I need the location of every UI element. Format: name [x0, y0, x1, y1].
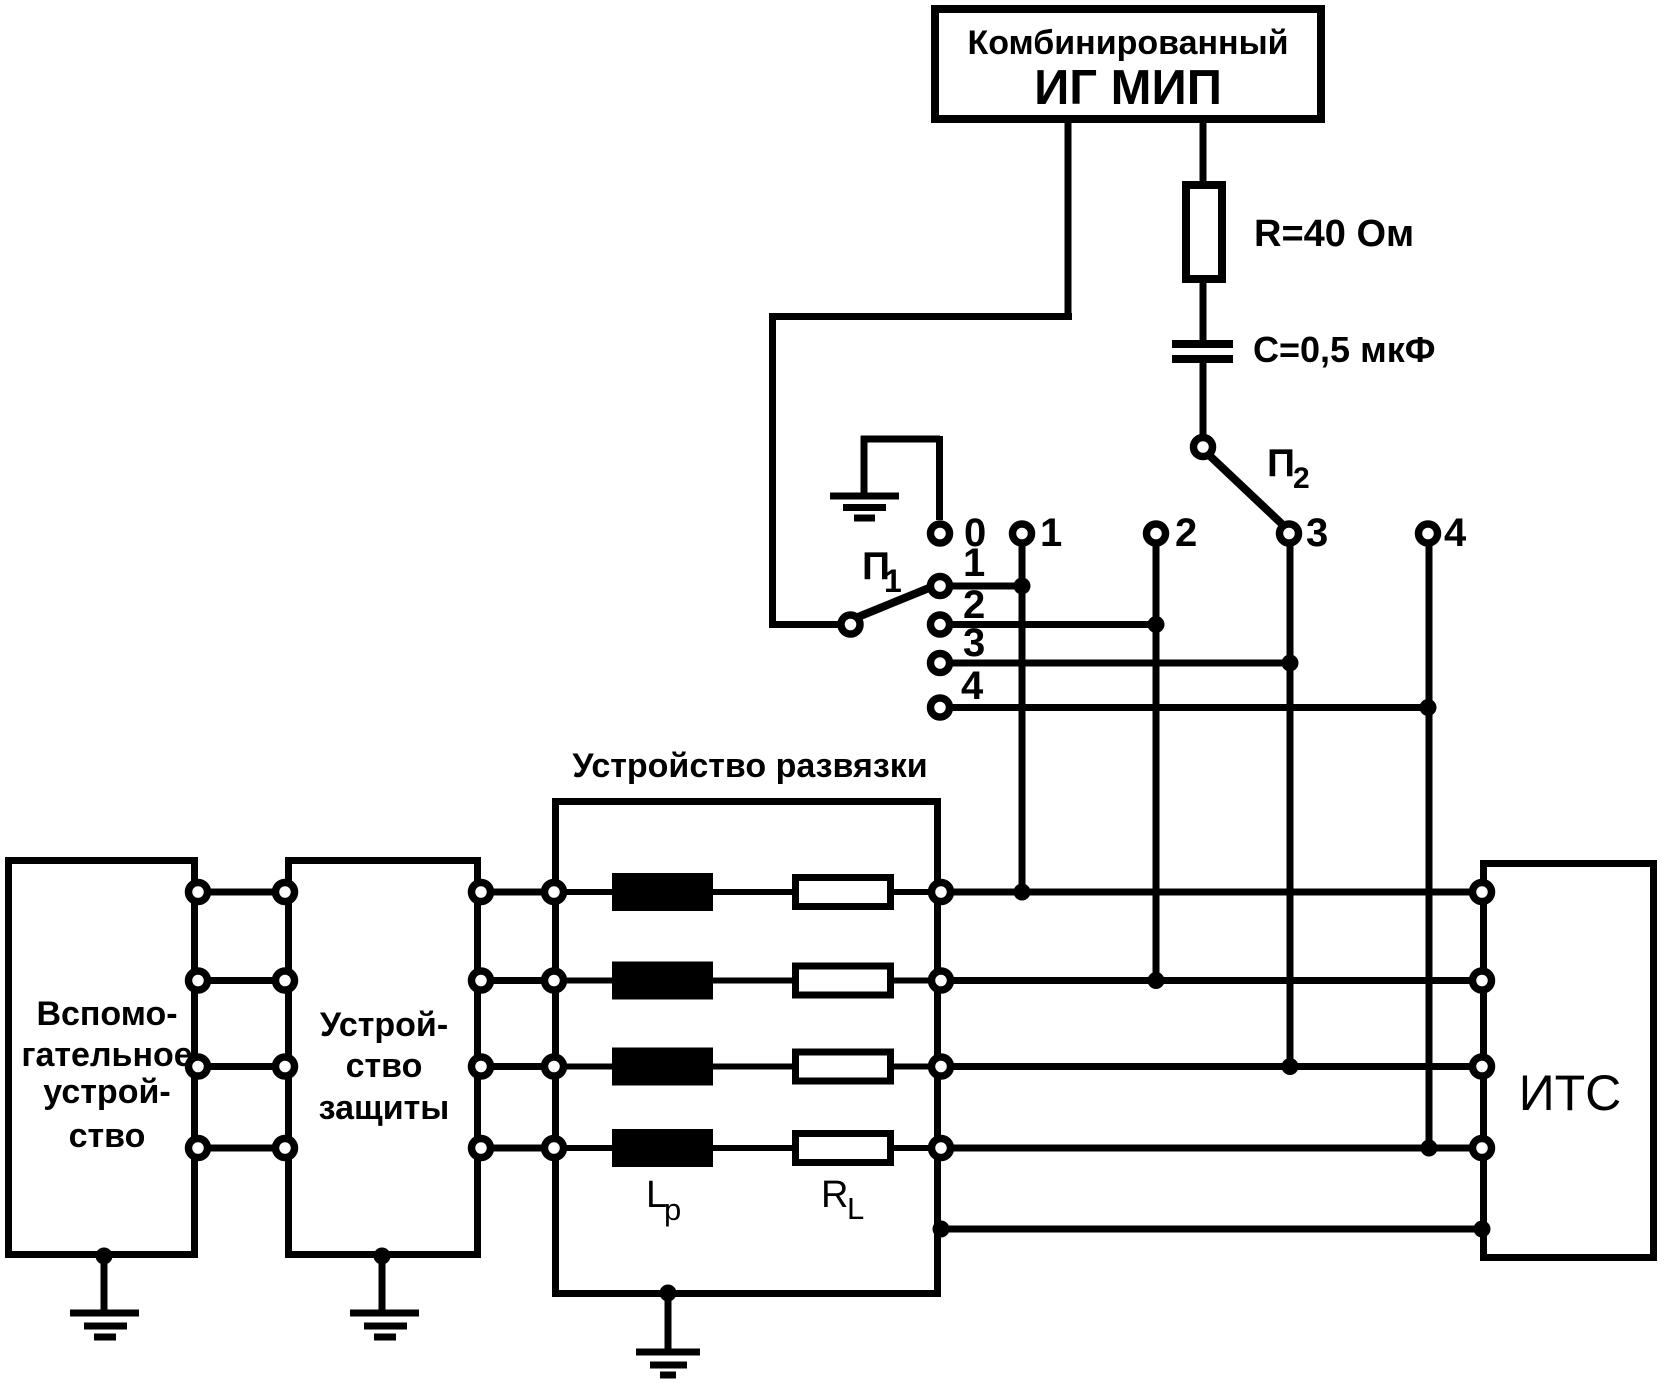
row1 wires	[198, 889, 1480, 896]
svg-text:гательное: гательное	[21, 1036, 192, 1074]
selector contact 1	[931, 577, 950, 596]
svg-text:ство: ство	[346, 1047, 423, 1085]
row2 wires	[198, 977, 1480, 984]
svg-text:4: 4	[961, 664, 984, 708]
wire left stem from generator	[1065, 121, 1072, 316]
ITS box	[1484, 864, 1654, 1258]
svg-text:1: 1	[1040, 511, 1062, 555]
wire to switch pole P1	[769, 621, 843, 628]
selector contact 2	[931, 615, 950, 634]
wire terminal2 down	[1153, 543, 1160, 981]
svg-text:защиты: защиты	[319, 1089, 450, 1127]
resistor RL row4	[796, 1134, 891, 1163]
switch P1 pole	[841, 615, 860, 634]
auxiliary device box	[9, 861, 195, 1255]
svg-text:2: 2	[1175, 511, 1197, 555]
label Lp	[646, 1174, 681, 1227]
wire resistor to capacitor	[1200, 279, 1207, 341]
svg-text:ство: ство	[69, 1117, 146, 1155]
wire terminal1 down	[1019, 543, 1026, 892]
svg-text:ИТС: ИТС	[1519, 1065, 1622, 1121]
ground aux device	[70, 1248, 139, 1338]
terminal 1	[1013, 524, 1032, 543]
ground top	[830, 436, 899, 518]
svg-text:R=40 Ом: R=40 Ом	[1254, 213, 1414, 255]
terminal 4	[1419, 524, 1438, 543]
wire vertical left down	[769, 313, 776, 628]
inductor Lp row2	[612, 962, 713, 1000]
junction dot line3	[1282, 655, 1299, 672]
svg-text:1: 1	[884, 563, 902, 599]
junction dot row2	[1148, 972, 1165, 989]
decoupling device box	[556, 802, 938, 1294]
inductor Lp row1	[612, 873, 713, 911]
wire contact3 to node	[949, 660, 1290, 667]
terminal 0	[931, 524, 950, 543]
svg-text:p: p	[664, 1192, 681, 1227]
terminal 2	[1147, 524, 1166, 543]
ground decoupling device	[636, 1285, 700, 1376]
switch P1 arm	[858, 588, 929, 617]
svg-text:R: R	[821, 1174, 848, 1216]
label RL	[821, 1174, 864, 1226]
resistor RL row2	[796, 966, 891, 995]
protection device box	[289, 861, 478, 1255]
row4 wires	[198, 1145, 1480, 1152]
svg-text:2: 2	[1293, 462, 1310, 495]
switch P2 pole	[1194, 438, 1213, 457]
label P1	[862, 545, 902, 599]
svg-text:Вспомо-: Вспомо-	[36, 995, 177, 1033]
resistor RL row1	[796, 878, 891, 907]
inductor Lp row3	[612, 1048, 713, 1086]
svg-text:устрой-: устрой-	[43, 1073, 170, 1111]
wire capacitor to switch P2	[1200, 363, 1207, 436]
wire contact1 to node	[949, 583, 1022, 590]
terminal circles row2	[189, 971, 1492, 990]
capacitor C=0,5 мкФ	[1172, 344, 1233, 359]
common return wire	[941, 1226, 1482, 1233]
generator box ИГ МИП	[935, 9, 1321, 119]
inductor Lp row4	[612, 1129, 713, 1167]
wire ground hook to terminal 0	[861, 436, 940, 520]
switch P2 arm	[1210, 456, 1283, 525]
wire right stem from generator to resistor	[1200, 121, 1207, 185]
svg-text:П: П	[1267, 442, 1295, 485]
junction dot row3	[1282, 1058, 1299, 1075]
wire contact2 to node	[949, 621, 1156, 628]
svg-text:Устройство развязки: Устройство развязки	[572, 747, 927, 785]
terminal circles row4	[189, 1139, 1492, 1158]
junction dot return left	[933, 1221, 950, 1238]
svg-text:ИГ МИП: ИГ МИП	[1034, 61, 1222, 115]
selector contact 4	[931, 698, 950, 717]
selector contact 3	[931, 654, 950, 673]
junction dot line1	[1014, 578, 1031, 595]
resistor R=40 Ом	[1186, 185, 1222, 279]
junction dot line4	[1420, 699, 1437, 716]
svg-text:C=0,5 мкФ: C=0,5 мкФ	[1253, 329, 1435, 370]
ground protection device	[350, 1248, 419, 1338]
svg-text:Комбинированный: Комбинированный	[967, 24, 1288, 62]
svg-text:3: 3	[1306, 511, 1328, 555]
junction dot line2	[1148, 616, 1165, 633]
wire horizontal from stem to left	[769, 313, 1072, 320]
wire terminal3 down	[1287, 543, 1294, 1067]
junction dot row1	[1014, 884, 1031, 901]
terminal 3	[1280, 524, 1299, 543]
wire terminal4 down	[1426, 543, 1433, 1148]
label P2	[1267, 442, 1310, 495]
svg-text:L: L	[847, 1191, 864, 1226]
junction dot return right	[1474, 1221, 1491, 1238]
row3 wires	[198, 1063, 1480, 1070]
wire contact4 to node	[949, 704, 1428, 711]
terminal circles row1	[189, 883, 1492, 902]
svg-text:4: 4	[1444, 511, 1467, 555]
svg-text:Устрой-: Устрой-	[320, 1006, 448, 1044]
svg-text:1: 1	[963, 541, 985, 585]
junction dot row4	[1421, 1140, 1438, 1157]
terminal circles row3	[189, 1057, 1492, 1076]
resistor RL row3	[796, 1052, 891, 1081]
